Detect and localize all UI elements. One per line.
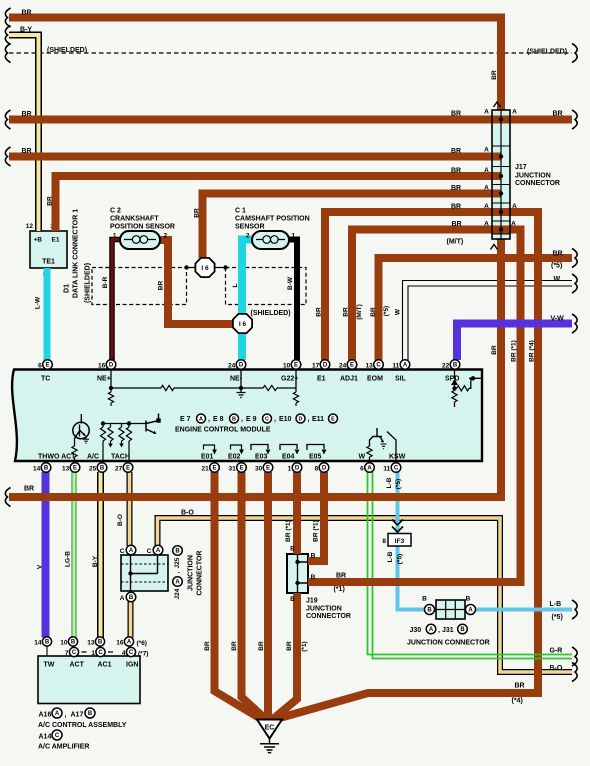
- svg-text:B: B: [453, 363, 458, 369]
- svg-text:C: C: [265, 417, 269, 423]
- ECM internal circuit at SPD: [454, 370, 456, 390]
- svg-text:(SHIELDED): (SHIELDED): [84, 263, 91, 303]
- svg-text:L-W: L-W: [35, 296, 42, 309]
- wire from ECM pin 13 up through resistor to Q1: [74, 457, 76, 460]
- svg-text:BR: BR: [204, 641, 211, 651]
- svg-text:BR (*1): BR (*1): [511, 340, 518, 362]
- shield box around C1 wires: [226, 268, 307, 305]
- svg-text:B: B: [422, 596, 427, 603]
- svg-text:V-W: V-W: [551, 316, 565, 323]
- wire BR: ECM E1 up through J17, down right side to EC ground (*4): [278, 212, 538, 719]
- svg-text:A: A: [120, 595, 125, 602]
- svg-text:C: C: [55, 733, 60, 739]
- pin 10(E) ECM top: [291, 360, 301, 370]
- svg-text:B: B: [71, 640, 76, 646]
- node: J17 bus junction dots: [499, 117, 503, 121]
- svg-text:SENSOR: SENSOR: [235, 224, 265, 231]
- svg-text:BR: BR: [451, 168, 461, 175]
- svg-text:B: B: [98, 640, 103, 646]
- wire break symbols left edge: [5, 8, 10, 27]
- wire BR (M/T): ECM ADJ1 up through J17, down to J19 (*1): [308, 230, 521, 583]
- pin 24(D) ECM top: [236, 360, 246, 370]
- svg-text:B: B: [466, 596, 471, 603]
- svg-text:BR: BR: [451, 204, 461, 211]
- svg-text:(SHIELDED): (SHIELDED): [47, 47, 87, 54]
- svg-text:NE-: NE-: [230, 376, 243, 383]
- transistor Q3 near W pin: [369, 457, 371, 460]
- wire B-W: camshaft sensor pin 1 down to ECM G22+: [288, 240, 297, 361]
- svg-text:BR: BR: [231, 641, 238, 651]
- pin 8(D) ECM bottom: [319, 463, 329, 473]
- ECM internal shield arrows above E01-E05: [204, 445, 215, 450]
- svg-text:TC: TC: [41, 376, 50, 383]
- svg-text:J30: J30: [410, 627, 422, 634]
- svg-text:B: B: [311, 574, 316, 581]
- svg-text:24: 24: [228, 363, 236, 370]
- svg-text:ADJ1: ADJ1: [340, 376, 358, 383]
- wire W: right edge to SIL pin, drawn as open double line: [403, 281, 573, 361]
- svg-text:A: A: [156, 548, 161, 554]
- transistor Q2: [146, 414, 159, 434]
- svg-text:(M/T): (M/T): [447, 239, 464, 246]
- svg-text:13: 13: [87, 640, 95, 647]
- svg-text:4: 4: [122, 650, 126, 657]
- svg-text:C: C: [120, 548, 125, 555]
- svg-text:14: 14: [34, 640, 42, 647]
- svg-text:C 1: C 1: [235, 208, 246, 215]
- pin 13(E) ECM bottom: [70, 463, 80, 473]
- ground below NE-: [237, 388, 246, 398]
- svg-text:1: 1: [113, 233, 117, 240]
- svg-text:BR: BR: [491, 345, 498, 355]
- svg-text:A: A: [468, 608, 473, 614]
- svg-text:C: C: [394, 466, 399, 472]
- resistor below NE+: [110, 388, 112, 392]
- svg-text:E 7: E 7: [180, 416, 191, 423]
- wire BR: top left edge to J17 top entry: [9, 18, 501, 111]
- svg-text:V: V: [37, 564, 44, 569]
- svg-text:,: ,: [174, 571, 181, 573]
- svg-text:ENGINE CONTROL MODULE: ENGINE CONTROL MODULE: [175, 427, 271, 434]
- svg-text:A: A: [484, 109, 489, 116]
- svg-text:LG-B: LG-B: [65, 551, 72, 567]
- svg-text:(SHIELDED): (SHIELDED): [527, 49, 567, 56]
- svg-text:BR: BR: [22, 148, 32, 155]
- svg-text:E: E: [294, 363, 298, 369]
- svg-text:B-Y: B-Y: [92, 555, 99, 567]
- svg-text:12: 12: [26, 223, 34, 230]
- svg-text:31: 31: [228, 466, 236, 473]
- pin 31(E) ECM bottom: [237, 463, 247, 473]
- svg-text:BR: BR: [553, 251, 563, 258]
- svg-text:A: A: [484, 203, 489, 210]
- svg-text:BR: BR: [515, 683, 525, 690]
- svg-text:BR: BR: [491, 70, 498, 80]
- svg-text:TACH: TACH: [111, 454, 130, 461]
- svg-text:A: A: [403, 363, 408, 369]
- svg-text:E11: E11: [312, 416, 324, 423]
- svg-text:A16: A16: [39, 712, 52, 719]
- pin 1(D) ECM bottom: [292, 463, 302, 473]
- svg-text:CRANKSHAFT: CRANKSHAFT: [110, 216, 159, 223]
- pin 1(C) A/C assembly row2: [96, 647, 105, 656]
- inductor C2: crankshaft position sensor body: [120, 231, 160, 249]
- wire BR: I6 shield connector up and right to J17: [203, 194, 502, 259]
- svg-text:BR: BR: [258, 641, 265, 651]
- J17 bottom connector arrow: [491, 245, 498, 250]
- svg-text:B-W: B-W: [287, 276, 294, 290]
- svg-text:8: 8: [382, 538, 386, 545]
- wire G: ECM pin 6 W down toward G-R corner (double green): [367, 472, 369, 652]
- svg-text:A: A: [484, 147, 489, 154]
- svg-text:A: A: [484, 167, 489, 174]
- svg-text:2: 2: [246, 233, 250, 240]
- J17 top connector arrow: [494, 102, 501, 107]
- svg-text:KSW: KSW: [389, 454, 406, 461]
- wire BR: ECM E01 to EC ground: [215, 472, 263, 720]
- pin C(A) J24 left: [126, 545, 136, 555]
- svg-text:BR (*4): BR (*4): [529, 340, 536, 362]
- wire L-W: TE1 pin 8 down to ECM TC: [44, 268, 51, 360]
- resistor pair above A/C pin: [102, 424, 104, 428]
- svg-text:CAMSHAFT POSITION: CAMSHAFT POSITION: [235, 216, 310, 223]
- svg-text:14: 14: [33, 466, 41, 473]
- pin 6(A) ECM bottom: [365, 463, 375, 473]
- svg-text:11: 11: [392, 363, 399, 370]
- svg-text:I 6: I 6: [239, 321, 247, 328]
- svg-text:AC1: AC1: [98, 662, 112, 669]
- svg-text:BR: BR: [194, 208, 201, 218]
- svg-text:E02: E02: [228, 454, 241, 461]
- svg-text:C 2: C 2: [110, 208, 121, 215]
- svg-text:E1: E1: [317, 376, 326, 383]
- svg-text:E: E: [73, 466, 77, 472]
- svg-text:11: 11: [383, 466, 390, 473]
- wire BR: ECM E05 down and left to J19: [308, 472, 324, 561]
- pin 13(B) A/C assembly: [99, 646, 101, 656]
- op-amp U1: ENGINE CONTROL MODULE box: [12, 370, 482, 462]
- svg-text:POSITION SENSOR: POSITION SENSOR: [110, 224, 175, 231]
- svg-text:,: ,: [241, 416, 243, 423]
- pin 24(E) ECM top: [347, 360, 357, 370]
- svg-text:(*7): (*7): [138, 651, 148, 658]
- pin 4(C) A/C assembly row2: [126, 647, 135, 656]
- svg-text:B: B: [129, 595, 134, 601]
- text: J24/J25 rotated legend: [173, 546, 183, 556]
- svg-text:BR: BR: [158, 281, 165, 291]
- svg-text:E: E: [266, 466, 270, 472]
- svg-text:B: B: [460, 627, 465, 633]
- svg-text:CONNECTOR: CONNECTOR: [515, 180, 560, 187]
- connector J17: junction connector body fill: [492, 110, 510, 239]
- connector I6: shield connector octagon lower: [233, 314, 252, 333]
- svg-text:2: 2: [164, 233, 168, 240]
- wire BR: J17 bottom down, left to left edge: [9, 239, 501, 497]
- connector J17: border, divider, cells: [492, 110, 510, 239]
- pin 30(E) ECM bottom: [263, 463, 273, 473]
- svg-text:E04: E04: [282, 454, 295, 461]
- svg-text:EOM: EOM: [367, 376, 383, 383]
- svg-text:30: 30: [255, 466, 263, 473]
- ground at Q1 emitter: [83, 437, 89, 443]
- wire V: ECM pin 14 THWO ACT down to A/C TW: [42, 472, 50, 638]
- pin A of J31: [466, 605, 476, 615]
- pin 11(A) ECM top: [400, 360, 410, 370]
- svg-text:JUNCTION: JUNCTION: [187, 555, 194, 591]
- svg-text:E01: E01: [201, 454, 214, 461]
- svg-text:E: E: [45, 363, 49, 369]
- svg-text:25: 25: [89, 466, 97, 473]
- svg-text:J31: J31: [442, 627, 454, 634]
- svg-text:B: B: [232, 417, 236, 423]
- svg-text:A: A: [512, 203, 517, 210]
- shield box around C2 B-R wire: [92, 268, 187, 305]
- dashed shield links to connector I6: [187, 267, 226, 269]
- pin A(B) J24 bottom: [126, 592, 136, 602]
- wire break symbols right edge: [572, 44, 577, 63]
- svg-text:BR: BR: [451, 148, 461, 155]
- svg-text:A/C AMPLIFIER: A/C AMPLIFIER: [38, 744, 89, 751]
- pin 25(B) ECM bottom: [97, 463, 107, 473]
- svg-text:C: C: [98, 650, 103, 656]
- svg-text:(*5): (*5): [551, 263, 562, 270]
- KSW internal switch line: [387, 432, 396, 461]
- svg-text:B: B: [290, 596, 295, 603]
- pin 14(B) A/C assembly: [46, 646, 48, 656]
- svg-text:J19: J19: [306, 598, 318, 605]
- svg-text:A: A: [55, 711, 60, 717]
- connector A16/A17: A/C CONTROL ASSEMBLY box: [38, 656, 140, 704]
- wire B-R: crankshaft sensor pin 1 down to ECM NE+: [112, 240, 121, 361]
- svg-text:,: ,: [438, 627, 440, 634]
- svg-text:E05: E05: [309, 454, 322, 461]
- svg-text:13: 13: [365, 363, 373, 370]
- svg-text:BR: BR: [451, 185, 461, 192]
- svg-text:A: A: [367, 466, 372, 472]
- svg-text:BR: BR: [24, 486, 34, 493]
- wire BR: ECM E04 down to J19 top: [293, 472, 301, 554]
- svg-text:A: A: [511, 221, 516, 228]
- svg-text:D: D: [299, 417, 303, 423]
- svg-text:E: E: [126, 466, 130, 472]
- svg-text:E: E: [331, 417, 335, 423]
- svg-text:D: D: [322, 466, 327, 472]
- wire L-B: horizontal through J30/J31 to right edge (*5): [396, 608, 573, 612]
- pin 7(C) A/C assembly row2: [69, 647, 78, 656]
- svg-text:E10: E10: [279, 416, 292, 423]
- svg-text:JUNCTION CONNECTOR: JUNCTION CONNECTOR: [407, 640, 490, 647]
- svg-text:L: L: [232, 283, 239, 287]
- wire B-Y: ECM pin 25 down to A/C AC1: [97, 472, 104, 638]
- svg-text:A17: A17: [71, 712, 84, 719]
- internal rail over A/C and TACH pins: [103, 423, 146, 425]
- svg-text:JUNCTION: JUNCTION: [515, 173, 551, 180]
- wire BR: TE1 pin 3 E1 up and right to J17: [56, 176, 502, 231]
- svg-text:L-B: L-B: [387, 551, 394, 562]
- pin 11(C) ECM bottom: [391, 463, 401, 473]
- svg-text:BR (*1): BR (*1): [313, 520, 320, 542]
- svg-text:(*5): (*5): [395, 479, 402, 489]
- ECM internal rail NE+/NE-/G22+ with resistors: [111, 370, 296, 388]
- svg-text:B-O: B-O: [550, 665, 563, 672]
- svg-text:IGN: IGN: [126, 662, 138, 669]
- svg-text:B-R: B-R: [102, 276, 109, 288]
- resistor pair above TACH pin: [121, 424, 123, 428]
- svg-text:B: B: [88, 711, 93, 717]
- svg-text:D: D: [239, 363, 244, 369]
- svg-text:J24: J24: [174, 588, 181, 599]
- svg-text:BR: BR: [316, 307, 323, 317]
- svg-text:16: 16: [116, 640, 124, 647]
- svg-text:,: ,: [65, 712, 67, 719]
- svg-text:C: C: [129, 650, 134, 656]
- svg-text:BR: BR: [451, 111, 461, 118]
- svg-text:27: 27: [115, 466, 123, 473]
- svg-text:BR: BR: [22, 10, 32, 17]
- svg-text:A: A: [129, 548, 134, 554]
- pin 27(E) ECM bottom: [123, 463, 133, 473]
- svg-text:D: D: [323, 363, 328, 369]
- wire G-R: corner and horizontals to right edge: [368, 651, 573, 655]
- svg-text:A: A: [127, 640, 132, 646]
- pin 16(D) ECM top: [106, 360, 116, 370]
- svg-text:B: B: [45, 640, 50, 646]
- svg-text:E: E: [239, 466, 243, 472]
- connector TE1: DATA LINK CONNECTOR 1: [26, 223, 67, 278]
- svg-text:(SHIELDED): (SHIELDED): [251, 310, 291, 317]
- pin 17(D) ECM top: [320, 360, 330, 370]
- svg-text:BR: BR: [370, 307, 377, 317]
- svg-text:8: 8: [315, 466, 319, 473]
- svg-text:I 6: I 6: [201, 265, 209, 272]
- svg-text:B: B: [311, 553, 316, 560]
- svg-text:B: B: [290, 546, 295, 553]
- wire BR: row 2 left edge to J17: [9, 116, 572, 124]
- svg-text:6: 6: [360, 466, 364, 473]
- svg-text:(*5): (*5): [552, 614, 563, 621]
- wire L-B: ECM pin 11 KSW down through IF3 to corner: [396, 472, 400, 534]
- node: shield junction dots: [184, 265, 188, 269]
- svg-text:B: B: [175, 549, 180, 555]
- svg-text:JUNCTION: JUNCTION: [306, 606, 342, 613]
- connector arrows into IF3: [392, 520, 403, 533]
- svg-text:6: 6: [38, 363, 42, 370]
- svg-text:7: 7: [65, 650, 69, 657]
- pin C(A) J24 right: [153, 545, 163, 555]
- svg-text:A: A: [175, 580, 180, 586]
- svg-text:BR: BR: [452, 221, 462, 228]
- svg-text:A: A: [484, 185, 489, 192]
- svg-text:D: D: [109, 363, 114, 369]
- pin B of J30: [425, 605, 435, 615]
- svg-text:G-R: G-R: [550, 648, 563, 655]
- svg-text:B: B: [44, 466, 49, 472]
- wire: top (SHIELDED) dashed line: [9, 52, 572, 54]
- svg-text:C: C: [72, 650, 77, 656]
- svg-text:B: B: [427, 608, 432, 614]
- wire B-Y: battery feed from left edge down to TE1 pin 12: [9, 35, 39, 231]
- svg-text:22: 22: [442, 363, 450, 370]
- svg-text:E: E: [350, 363, 354, 369]
- svg-text:+B: +B: [34, 237, 43, 244]
- svg-text:A: A: [484, 221, 489, 228]
- resistor below G22+: [295, 388, 297, 392]
- svg-text:BR: BR: [336, 573, 346, 580]
- pin 10(B) A/C assembly: [72, 646, 74, 656]
- svg-text:J25: J25: [174, 557, 181, 568]
- svg-text:BR: BR: [22, 111, 32, 118]
- wire B-O: ECM pin 27 TACH down to J24 pin C(A): [127, 472, 133, 546]
- svg-text:,: ,: [208, 416, 210, 423]
- svg-text:W: W: [554, 276, 561, 283]
- svg-text:DATA LINK CONNECTOR 1: DATA LINK CONNECTOR 1: [72, 209, 79, 298]
- pin 21(E) ECM bottom: [210, 463, 220, 473]
- svg-text:13: 13: [62, 466, 70, 473]
- wire BR: ECM EOM up and right to right edge (*5): [379, 258, 573, 360]
- svg-text:C: C: [147, 548, 152, 555]
- svg-text:,: ,: [308, 416, 310, 423]
- svg-text:,: ,: [274, 416, 276, 423]
- pin 13(C) ECM top: [374, 360, 384, 370]
- wire L: camshaft sensor pin 2 down to ECM NE-: [242, 240, 253, 361]
- svg-text:10: 10: [283, 363, 291, 370]
- svg-text:CONNECTOR: CONNECTOR: [196, 551, 203, 596]
- wire B-O: J24 pin C(A) up, right, down and to right edge B-O: [158, 518, 573, 672]
- ground symbol under EC: [260, 739, 279, 753]
- pin 6(E) ECM top: [43, 360, 53, 370]
- svg-text:E 8: E 8: [213, 416, 224, 423]
- svg-text:(M/T): (M/T): [356, 304, 363, 320]
- pin 22(B) ECM top: [450, 360, 460, 370]
- svg-text:1: 1: [91, 650, 95, 657]
- svg-text:B-Y: B-Y: [20, 27, 32, 34]
- svg-text:E 9: E 9: [246, 416, 257, 423]
- connector J19: junction connector box: [287, 554, 308, 593]
- wire BR: ECM E03 to EC ground: [264, 472, 272, 721]
- svg-text:EC: EC: [265, 725, 275, 732]
- svg-text:D: D: [295, 466, 300, 472]
- pin 16(A) A/C assembly: [128, 646, 130, 656]
- svg-text:E03: E03: [255, 454, 268, 461]
- svg-text:17: 17: [312, 363, 320, 370]
- svg-text:21: 21: [201, 466, 209, 473]
- svg-text:A/C CONTROL ASSEMBLY: A/C CONTROL ASSEMBLY: [38, 722, 127, 729]
- svg-text:G22+: G22+: [281, 376, 298, 383]
- svg-text:(*5): (*5): [397, 554, 404, 564]
- svg-text:A14: A14: [39, 734, 52, 741]
- svg-text:1: 1: [288, 466, 292, 473]
- svg-text:(*6): (*6): [137, 640, 147, 647]
- svg-text:J17: J17: [515, 164, 527, 171]
- svg-text:BR: BR: [553, 111, 563, 118]
- svg-text:SPD: SPD: [445, 376, 459, 383]
- svg-text:A: A: [512, 109, 517, 116]
- svg-text:TW: TW: [44, 662, 55, 669]
- svg-text:(*5): (*5): [383, 306, 390, 316]
- svg-text:A/C: A/C: [87, 454, 99, 461]
- svg-text:(*1): (*1): [334, 586, 345, 593]
- svg-text:BR (*1): BR (*1): [285, 520, 292, 542]
- wire V-W: right edge to ECM SPD: [457, 324, 572, 361]
- inductor C1: camshaft position sensor body: [252, 231, 289, 249]
- svg-text:W: W: [395, 308, 402, 315]
- wire BR: ECM E02 to EC ground: [242, 472, 267, 720]
- svg-text:24: 24: [339, 363, 347, 370]
- svg-text:IF3: IF3: [395, 538, 405, 545]
- svg-text:10: 10: [60, 640, 68, 647]
- svg-text:L-B: L-B: [386, 477, 393, 488]
- svg-text:L-B: L-B: [550, 601, 562, 608]
